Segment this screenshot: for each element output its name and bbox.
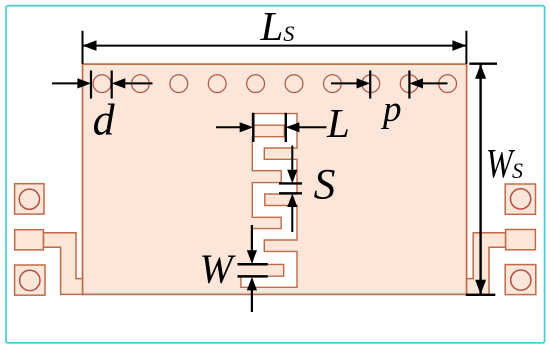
L arrow left [216,126,241,128]
left bottom mounting pad [15,265,45,295]
right top pad hole [510,189,530,209]
right connector pad [506,230,536,250]
dimension Ws line [479,64,481,294]
left top pad hole [19,189,39,209]
Ws tick top [469,63,497,65]
via V10 [439,75,457,93]
S tick top [279,182,302,184]
substrate (top copper) [83,64,467,294]
via V5 [247,75,265,93]
left top mounting pad [15,184,44,214]
dimension p tick right [408,71,410,99]
d arrow right [125,82,153,84]
via V9 [400,75,418,93]
Ls arrowhead right [452,40,466,51]
via V1 [93,75,111,93]
right top mounting pad [505,184,535,214]
svg-text:S: S [314,161,336,209]
dimension d tick right [111,71,113,99]
via V4 [208,75,226,93]
right bottom mounting pad [505,265,536,295]
p arrow left [331,82,357,84]
Ws arrowhead top [475,64,486,79]
Ws arrowhead bottom [475,280,486,295]
svg-text:W: W [200,246,236,292]
dimension L tick left [252,113,254,142]
via V2 [132,75,150,93]
svg-text:L: L [326,100,350,146]
via V7 [324,75,342,93]
dimension S down arrow [291,146,293,172]
right feed trace [467,233,506,295]
dimension Ls extension line left [82,31,84,64]
dimension p tick left [369,71,371,99]
via V6 [285,75,303,93]
dimension W down arrow [251,225,253,251]
L arrow right [299,126,327,128]
p arrow right [423,82,448,84]
W tick top [238,263,268,266]
meander slot [241,114,297,288]
dimension Ls extension line right [465,31,467,64]
svg-text:d: d [93,95,116,144]
dimension Ls line [83,45,467,47]
left bottom pad hole [20,270,40,290]
left connector pad [15,230,44,250]
S up arrow [291,207,293,232]
Ws tick bottom [466,294,496,296]
dimension d tick left [90,71,92,99]
svg-text:S: S [512,158,523,183]
left feed trace [43,233,82,295]
via V8 [362,75,380,93]
W up arrow [251,290,253,312]
d arrow left [52,82,78,84]
via V3 [170,75,188,93]
W tick bottom [238,275,268,278]
svg-text:p: p [380,89,402,130]
dimension L tick right [285,113,287,142]
right bottom pad hole [511,270,531,290]
Ls arrowhead left [83,40,97,51]
S tick bottom [279,192,302,194]
